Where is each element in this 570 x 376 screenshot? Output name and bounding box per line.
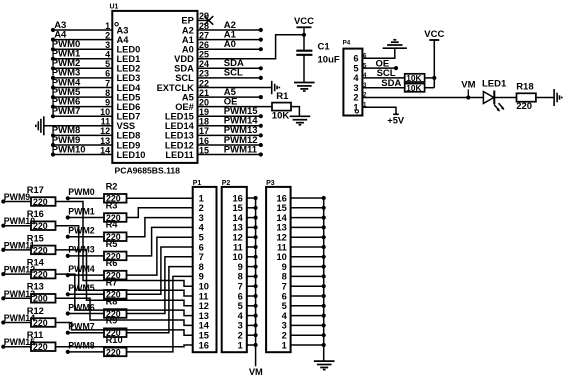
wire U1 pin 22 EXTCLK to ground: [198, 87, 272, 89]
svg-text:R7: R7: [106, 277, 118, 287]
wire PWM12 to R14: [3, 273, 31, 275]
wire P4 pin 1 to +5V: [362, 107, 396, 114]
node PWM15 junction dot: [1, 345, 5, 349]
svg-text:R3: R3: [106, 201, 118, 211]
node PWM1 junction dot: [51, 57, 55, 61]
svg-text:R6: R6: [106, 258, 118, 268]
node PWM13 junction dot: [259, 133, 263, 137]
svg-text:10K: 10K: [406, 73, 421, 83]
svg-text:A5: A5: [182, 92, 194, 102]
junction dot P2 pin 13: [254, 225, 258, 229]
svg-text:A2: A2: [182, 25, 194, 35]
node PWM8 junction dot: [51, 133, 55, 137]
resistor R15 body value 220: [31, 246, 56, 255]
wire PWM2 to R4: [68, 236, 104, 238]
node SCL junction dot: [259, 76, 263, 80]
ground right of R18: [553, 89, 555, 106]
svg-text:2: 2: [199, 203, 204, 213]
wire P3 pin 4 to ground bus: [291, 315, 324, 317]
junction dot P3 pin 16: [322, 196, 326, 200]
svg-text:10uF: 10uF: [318, 55, 340, 66]
resistor R4 body value 220: [104, 232, 127, 241]
wire P2 pin 14 to VM bus: [247, 217, 256, 219]
wire net A3 to U1 pin 1: [53, 29, 112, 31]
junction dot P2 pin 16: [254, 196, 258, 200]
connector P4 pin-1 indicator: [355, 110, 358, 113]
svg-text:8: 8: [282, 272, 287, 282]
node PWM12 junction dot: [1, 272, 5, 276]
wire U1 pin 24 net SDA: [198, 67, 261, 69]
svg-text:14: 14: [199, 321, 210, 331]
wire P2 pin 2 to VM bus: [247, 334, 256, 336]
wire P2 pin 10 to VM bus: [247, 256, 256, 258]
wire P4 pin 6 to ground: [362, 48, 394, 58]
wire net PWM3 to U1 pin 6: [53, 77, 112, 79]
svg-text:12: 12: [232, 233, 242, 243]
svg-text:3: 3: [353, 83, 358, 93]
node PWM0 junction dot: [51, 47, 55, 51]
connector P1 body: [193, 187, 217, 352]
svg-text:PWM8: PWM8: [68, 341, 94, 351]
svg-text:1: 1: [199, 193, 204, 203]
node A1 junction dot: [259, 38, 263, 42]
svg-text:LED11: LED11: [165, 150, 193, 160]
svg-text:R1: R1: [276, 91, 289, 102]
wire net PWM10 to U1 pin 14: [53, 154, 112, 156]
resistor R7 body value 220: [104, 290, 127, 299]
svg-text:3: 3: [238, 321, 243, 331]
wire P3 pin 2 to ground bus: [291, 334, 324, 336]
node A5 junction dot: [259, 95, 263, 99]
svg-text:R12: R12: [27, 306, 44, 316]
svg-text:R5: R5: [106, 239, 118, 249]
IC U1 PCA9685 body: [112, 11, 197, 163]
svg-text:OE#: OE#: [175, 102, 194, 112]
wire PWM3 to R5: [68, 255, 104, 257]
resistor R10 body value 220: [104, 348, 127, 357]
svg-text:PWM5: PWM5: [68, 283, 94, 293]
wire R6 to P1 pin 5: [127, 237, 193, 275]
wire net PWM5 to U1 pin 8: [53, 96, 112, 98]
wire net PWM0 to U1 pin 3: [53, 48, 112, 50]
junction dot P3 pin 10: [322, 255, 326, 259]
wire P4 pin 4 net SCL to R19 pullup: [362, 77, 404, 79]
svg-text:9: 9: [238, 262, 243, 272]
junction dot P2 pin 11: [254, 245, 258, 249]
capacitor C1: [303, 35, 305, 51]
wire P3 pin 12 to ground bus: [291, 236, 324, 238]
wire P3 pin 6 to ground bus: [291, 295, 324, 297]
svg-text:LED5: LED5: [117, 92, 141, 102]
node A2 junction dot: [259, 28, 263, 32]
wire P4 pin 5 net OE: [362, 67, 396, 69]
resistor R8 body value 220: [104, 309, 127, 318]
svg-text:9: 9: [199, 272, 204, 282]
wire U1 pin 15 net PWM11: [198, 154, 261, 156]
node PWM5 junction dot: [51, 95, 55, 99]
svg-text:10: 10: [199, 282, 209, 292]
svg-text:PWM0: PWM0: [68, 187, 94, 197]
svg-text:5: 5: [353, 63, 358, 73]
resistor R6 body value 220: [104, 271, 127, 280]
junction dot P2 pin 6: [254, 294, 258, 298]
node PWM7 junction dot: [51, 114, 55, 118]
wire R4 to P1 pin 3: [127, 218, 193, 237]
wire U1 pin 19 net PWM15: [198, 115, 261, 117]
svg-text:LED8: LED8: [117, 131, 141, 141]
junction dot P3 pin 8: [322, 274, 326, 278]
node VCC junction dot: [302, 33, 306, 37]
wire R15 to P1 pin 12: [56, 250, 193, 306]
node PWM6 junction dot: [66, 311, 70, 315]
wire R9 to P1 pin 8: [127, 267, 193, 333]
node PWM14 junction dot: [1, 320, 5, 324]
wire net PWM4 to U1 pin 7: [53, 87, 112, 89]
wire net PWM2 to U1 pin 5: [53, 67, 112, 69]
wire P3 pin 3 to ground bus: [291, 324, 324, 326]
svg-text:R13: R13: [27, 282, 44, 292]
svg-text:220: 220: [33, 221, 48, 231]
wire P3 pin 13 to ground bus: [291, 226, 324, 228]
node PWM11 junction dot: [259, 152, 263, 156]
svg-text:13: 13: [232, 223, 242, 233]
svg-text:4: 4: [353, 73, 359, 83]
svg-text:LED6: LED6: [117, 102, 141, 112]
svg-text:16: 16: [232, 193, 242, 203]
svg-text:LED7: LED7: [117, 112, 141, 122]
resistor R9 body value 220: [104, 328, 127, 337]
node A3 junction dot: [51, 28, 55, 32]
wire R18 to ground: [536, 97, 554, 99]
wire PWM8 to R10: [68, 351, 104, 353]
junction dot P2 pin 1: [254, 343, 258, 347]
svg-text:A0: A0: [224, 39, 236, 50]
wire P2 pin 16 to VM bus: [247, 197, 256, 199]
resistor R2 body value 220: [104, 194, 127, 203]
node PWM15 junction dot: [259, 114, 263, 118]
resistor R3 body value 220: [104, 213, 127, 222]
pull-up resistor 10K on SDA: [405, 84, 425, 92]
svg-text:LED9: LED9: [117, 140, 141, 150]
resistor R16 body value 220: [31, 221, 56, 230]
wire P3 pin 9 to ground bus: [291, 266, 324, 268]
svg-text:4: 4: [282, 311, 288, 321]
wire P4 pin 3 net SDA to R20 pullup: [362, 87, 404, 89]
wire net PWM9 to U1 pin 13: [53, 144, 112, 146]
node PWM3 junction dot: [51, 76, 55, 80]
wire net A4 to U1 pin 2: [53, 39, 112, 41]
wire P3 pin 11 to ground bus: [291, 246, 324, 248]
svg-text:VM: VM: [249, 367, 263, 376]
wire SDA pullup to VCC stem: [425, 87, 435, 89]
wire U1 pin 16 net PWM12: [198, 144, 261, 146]
svg-text:5: 5: [282, 301, 287, 311]
node PWM10 junction dot: [1, 224, 5, 228]
wire PWM1 to R3: [68, 217, 104, 219]
svg-text:C1: C1: [318, 41, 331, 52]
svg-text:220: 220: [33, 318, 48, 328]
node PWM12 junction dot: [259, 143, 263, 147]
svg-text:LED15: LED15: [165, 112, 194, 122]
svg-text:10K: 10K: [272, 111, 290, 122]
svg-text:14: 14: [276, 213, 287, 223]
svg-text:11: 11: [233, 242, 243, 252]
node PWM4 junction dot: [66, 273, 70, 277]
svg-text:LED14: LED14: [165, 121, 195, 131]
wire P2 pin 5 to VM bus: [247, 305, 256, 307]
wire LED1 to R18: [494, 97, 516, 99]
svg-text:VM: VM: [461, 79, 475, 90]
wire P2 pin 3 to VM bus: [247, 324, 256, 326]
svg-text:LED1: LED1: [482, 78, 507, 89]
wire PWM4 to R6: [68, 274, 104, 276]
wire R2 to P1 pin 1: [127, 197, 193, 199]
svg-text:LED10: LED10: [117, 150, 146, 160]
svg-text:R14: R14: [27, 258, 45, 268]
svg-text:6: 6: [238, 291, 243, 301]
wire R13 to P1 pin 14: [56, 298, 193, 325]
svg-text:LED3: LED3: [117, 73, 141, 83]
svg-text:220: 220: [33, 270, 48, 280]
svg-text:SCL: SCL: [175, 73, 194, 83]
wire U1 pin 25 VDD to VCC: [198, 35, 305, 59]
wire P2 pin 6 to VM bus: [247, 295, 256, 297]
junction dot P3 pin 6: [322, 294, 326, 298]
wire VM bus vertical: [255, 198, 257, 366]
power symbol VCC right: [429, 39, 439, 41]
wire R5 to P1 pin 4: [127, 227, 193, 256]
wire PWM15 to R11: [3, 346, 31, 348]
svg-text:P4: P4: [343, 40, 351, 47]
svg-text:LED13: LED13: [165, 131, 194, 141]
svg-text:+5V: +5V: [387, 116, 405, 126]
wire U1 pin 26 net A0: [198, 48, 261, 50]
junction dot P3 pin 9: [322, 265, 326, 269]
svg-text:R4: R4: [106, 220, 119, 230]
svg-text:16: 16: [199, 340, 209, 350]
resistor R13 body value 200: [31, 294, 56, 303]
wire U1 pin 20 OE# to R1: [198, 106, 273, 108]
svg-text:15: 15: [276, 203, 286, 213]
VCC stem wire: [433, 40, 435, 88]
svg-text:220: 220: [516, 101, 532, 112]
svg-text:7: 7: [238, 282, 243, 292]
connector P2 body: [222, 187, 247, 352]
junction dot P2 pin 14: [254, 216, 258, 220]
svg-text:LED2: LED2: [117, 64, 141, 74]
node PWM5 junction dot: [66, 292, 70, 296]
svg-text:220: 220: [33, 245, 48, 255]
node PWM9 junction dot: [1, 199, 5, 203]
svg-text:VCC: VCC: [424, 29, 444, 40]
node PWM9 junction dot: [51, 143, 55, 147]
wire U1 pin 18 net PWM14: [198, 125, 261, 127]
svg-text:LED12: LED12: [165, 140, 194, 150]
svg-text:2: 2: [238, 331, 243, 341]
node PWM14 junction dot: [259, 124, 263, 128]
svg-text:9: 9: [282, 262, 287, 272]
svg-text:PCA9685BS.118: PCA9685BS.118: [115, 166, 181, 176]
wire net PWM8 to U1 pin 12: [53, 134, 112, 136]
inverted ground at P4 pin 6: [383, 47, 407, 49]
wire R11 to P1 pin 16: [56, 345, 193, 347]
junction dot P2 pin 3: [254, 323, 258, 327]
wire R10 to P1 pin 9: [127, 276, 193, 352]
node PWM6 junction dot: [51, 105, 55, 109]
svg-text:1: 1: [353, 103, 358, 113]
wire P3 pin 10 to ground bus: [291, 256, 324, 258]
svg-text:16: 16: [276, 193, 286, 203]
junction dot P2 pin 2: [254, 333, 258, 337]
svg-text:R11: R11: [27, 330, 44, 340]
wire PWM14 to R12: [3, 322, 31, 324]
svg-text:4: 4: [238, 311, 244, 321]
wire P3 pin 8 to ground bus: [291, 275, 324, 277]
node A0 junction dot: [259, 47, 263, 51]
svg-text:PWM2: PWM2: [68, 226, 94, 236]
svg-text:200: 200: [33, 294, 48, 304]
svg-text:OE: OE: [224, 96, 238, 107]
wire R14 to P1 pin 13: [56, 274, 193, 316]
junction dot P3 pin 1: [322, 343, 326, 347]
wire P2 pin 11 to VM bus: [247, 246, 256, 248]
wire P3 pin 14 to ground bus: [291, 217, 324, 219]
svg-text:R8: R8: [106, 297, 118, 307]
svg-text:14: 14: [232, 213, 243, 223]
connector P3 body: [266, 187, 291, 352]
node A4 junction dot: [51, 38, 55, 42]
svg-text:11: 11: [277, 242, 287, 252]
svg-text:R17: R17: [27, 185, 44, 195]
junction dot P3 pin 11: [322, 245, 326, 249]
svg-text:PWM10: PWM10: [52, 144, 86, 155]
wire PWM9 to R17: [3, 201, 31, 203]
svg-text:15: 15: [199, 331, 209, 341]
wire P2 pin 4 to VM bus: [247, 315, 256, 317]
svg-text:A0: A0: [182, 45, 194, 55]
resistor R11 body value 220: [31, 342, 56, 351]
wire P3 ground bus vertical: [323, 198, 325, 361]
svg-text:8: 8: [238, 272, 243, 282]
svg-text:R16: R16: [27, 209, 44, 219]
ground at U1 pin 11 VSS: [43, 116, 45, 135]
svg-text:VSS: VSS: [117, 121, 136, 131]
svg-text:R18: R18: [516, 82, 533, 93]
svg-text:A4: A4: [117, 35, 130, 45]
svg-text:2: 2: [353, 93, 358, 103]
svg-text:4: 4: [199, 223, 205, 233]
wire PWM7 to R9: [68, 332, 104, 334]
svg-text:5: 5: [199, 233, 204, 243]
resistor R18 body: [517, 93, 536, 101]
junction dot P3 pin 3: [322, 323, 326, 327]
wire P3 pin 1 to ground bus: [291, 344, 324, 346]
svg-text:LED0: LED0: [117, 45, 141, 55]
junction dot P2 pin 7: [254, 284, 258, 288]
svg-text:5: 5: [238, 301, 243, 311]
wire R12 to P1 pin 15: [56, 323, 193, 336]
svg-text:1: 1: [238, 340, 243, 350]
ground at EXTCLK: [271, 81, 273, 94]
wire net PWM7 to U1 pin 10: [53, 115, 112, 117]
svg-text:10K: 10K: [406, 83, 421, 93]
power symbol VCC above C1: [297, 26, 312, 28]
svg-text:10: 10: [276, 252, 286, 262]
junction dot P3 pin 7: [322, 284, 326, 288]
node VM junction dot: [466, 95, 470, 99]
ground below P3 bus: [314, 360, 335, 362]
svg-text:220: 220: [33, 197, 48, 207]
wire P3 pin 5 to ground bus: [291, 305, 324, 307]
wire PWM6 to R8: [68, 313, 104, 315]
wire P2 pin 8 to VM bus: [247, 275, 256, 277]
svg-text:10: 10: [232, 252, 242, 262]
svg-text:EXTCLK: EXTCLK: [157, 83, 194, 93]
junction dot P3 pin 12: [322, 235, 326, 239]
svg-text:7: 7: [282, 282, 287, 292]
svg-text:LED1: LED1: [117, 54, 141, 64]
svg-text:220: 220: [106, 347, 121, 357]
svg-text:R2: R2: [106, 181, 118, 191]
svg-text:3: 3: [199, 213, 204, 223]
junction dot P3 pin 2: [322, 333, 326, 337]
wire R7 to P1 pin 6: [127, 247, 193, 294]
node PWM1 junction dot: [66, 215, 70, 219]
svg-text:2: 2: [282, 331, 287, 341]
node PWM8 junction dot: [66, 350, 70, 354]
wire SCL pullup to VCC: [425, 77, 435, 79]
wire P2 pin 13 to VM bus: [247, 226, 256, 228]
resistor R5 body value 220: [104, 252, 127, 261]
junction dot P3 pin 5: [322, 304, 326, 308]
junction dot P3 pin 14: [322, 216, 326, 220]
wire R16 to P1 pin 11: [56, 226, 193, 296]
wire PWM0 to R2: [68, 197, 104, 199]
svg-text:6: 6: [282, 291, 287, 301]
wire P2 pin 9 to VM bus: [247, 266, 256, 268]
resistor R12 body value 220: [31, 318, 56, 327]
no-connect X at U1 pin 29: [204, 16, 213, 25]
LED1 emission arrows: [494, 105, 499, 111]
svg-text:PWM7: PWM7: [52, 106, 81, 117]
svg-text:A3: A3: [117, 25, 129, 35]
svg-text:PWM1: PWM1: [68, 206, 94, 216]
wire PWM13 to R13: [3, 297, 31, 299]
wire U1 pin 23 net SCL: [198, 77, 261, 79]
pull-up resistor 10K on SCL: [405, 74, 425, 82]
svg-text:SDA: SDA: [174, 64, 194, 74]
svg-text:220: 220: [33, 342, 48, 352]
power symbol +5V: [393, 113, 399, 115]
svg-text:SDA: SDA: [381, 78, 401, 89]
junction dot P2 pin 8: [254, 274, 258, 278]
junction dot P2 pin 5: [254, 304, 258, 308]
wire R8 to P1 pin 7: [127, 257, 193, 314]
junction dot P2 pin 4: [254, 314, 258, 318]
junction dot at VCC stem: [432, 76, 436, 80]
node PWM7 junction dot: [66, 331, 70, 335]
junction dot P2 pin 15: [254, 206, 258, 210]
svg-text:7: 7: [199, 252, 204, 262]
junction dot P3 pin 15: [322, 206, 326, 210]
wire P2 pin 7 to VM bus: [247, 285, 256, 287]
node PWM0 junction dot: [66, 196, 70, 200]
U1 pin 29 EP no-connect stub: [198, 19, 209, 21]
svg-text:11: 11: [199, 291, 209, 301]
junction dot P2 pin 12: [254, 235, 258, 239]
resistor R14 body value 220: [31, 270, 56, 279]
svg-text:15: 15: [232, 203, 242, 213]
